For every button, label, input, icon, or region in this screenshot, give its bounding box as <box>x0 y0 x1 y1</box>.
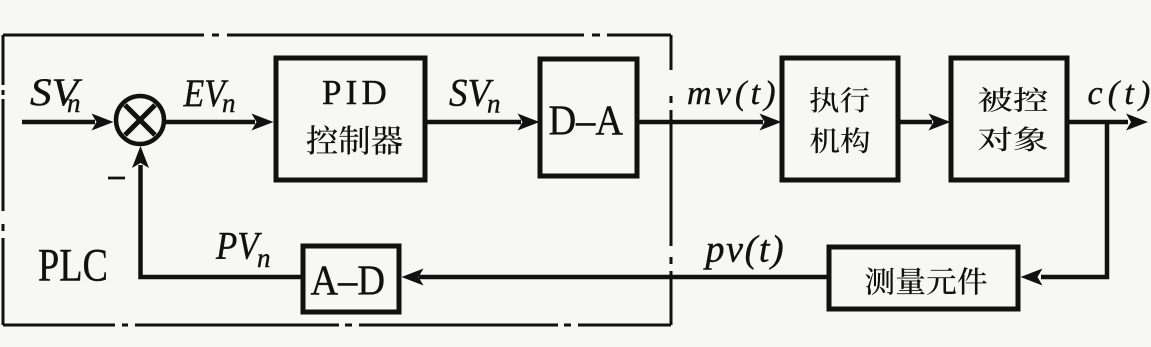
svg-text:c(t): c(t) <box>1088 75 1151 112</box>
svg-text:PID: PID <box>322 73 391 112</box>
svg-text:n: n <box>257 243 271 273</box>
svg-text:pv(t): pv(t) <box>703 229 786 271</box>
svg-text:D–A: D–A <box>549 98 624 145</box>
svg-text:PV: PV <box>215 225 262 268</box>
svg-text:mv(t): mv(t) <box>687 75 780 112</box>
svg-text:A–D: A–D <box>311 258 386 305</box>
svg-text:n: n <box>67 88 81 118</box>
svg-text:PLC: PLC <box>38 240 108 292</box>
svg-text:n: n <box>487 89 501 119</box>
svg-text:n: n <box>222 88 236 118</box>
